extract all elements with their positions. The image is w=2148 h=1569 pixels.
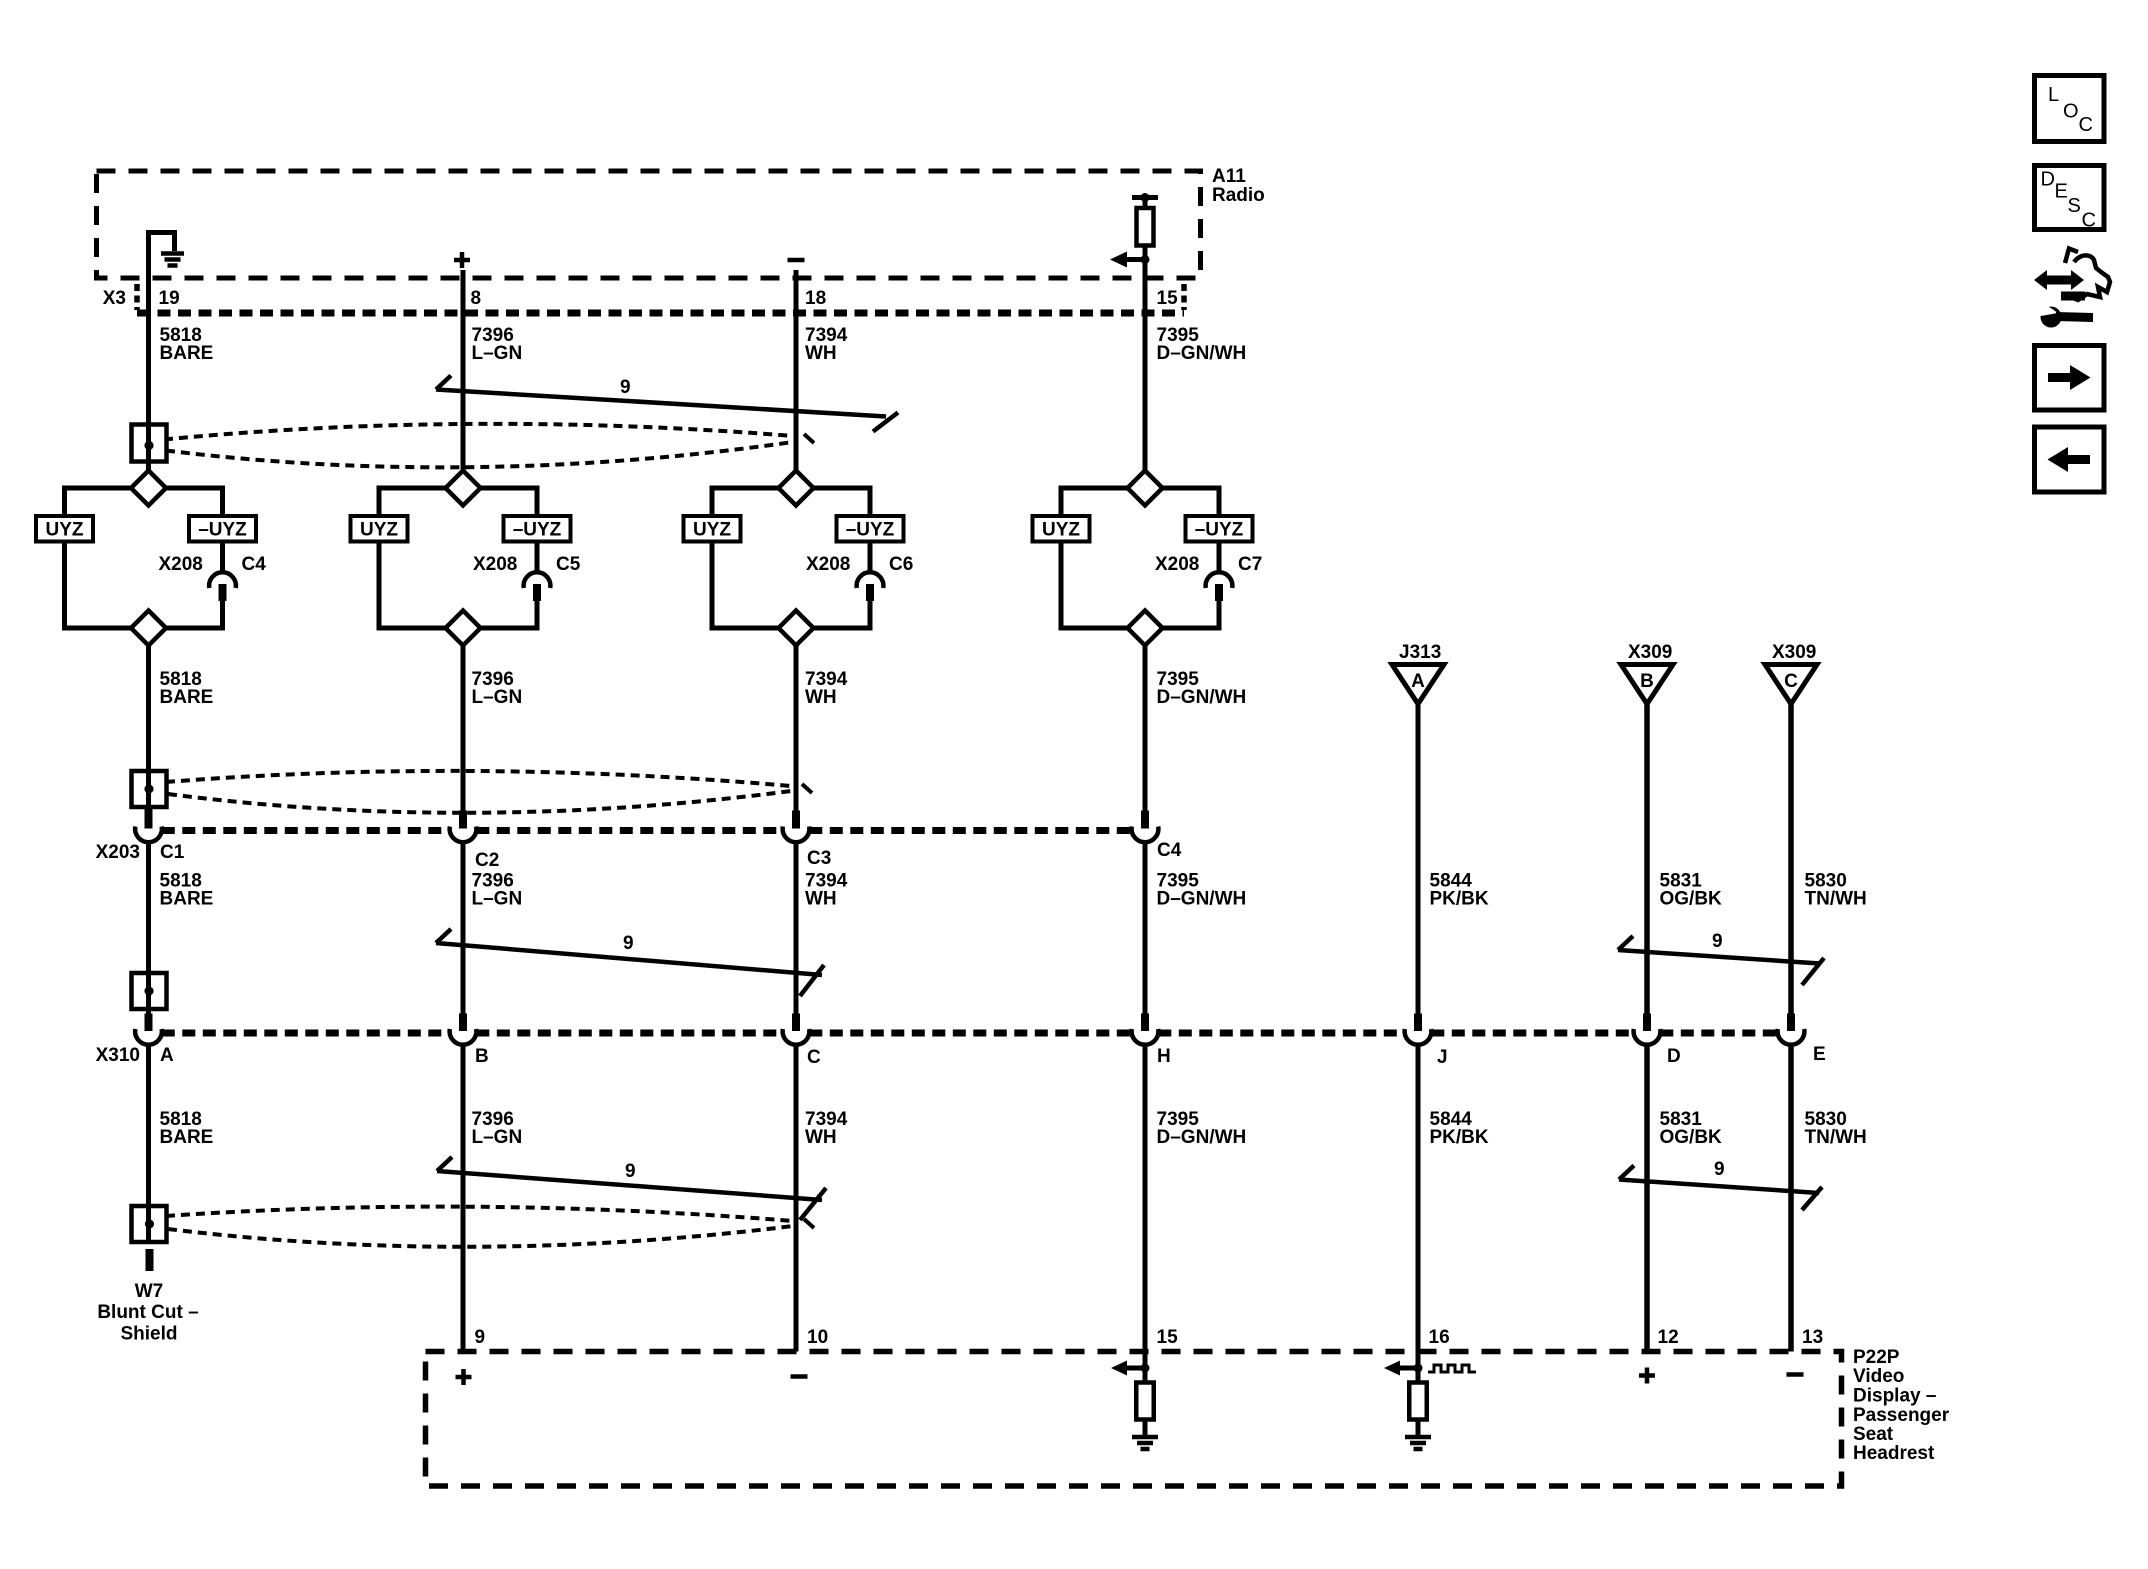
splice pack J313 terminal A bbox=[1399, 642, 1441, 663]
svg-text:9: 9 bbox=[623, 933, 634, 954]
svg-text:WH: WH bbox=[805, 889, 837, 910]
icon button next (right arrow) bbox=[2035, 346, 2105, 411]
svg-text:C4: C4 bbox=[242, 554, 267, 575]
shield drain splice (row 2) on wire 5818 bbox=[132, 771, 167, 807]
wire label 7396 L-GN (row 2) bbox=[472, 669, 523, 708]
option box UYZ bbox=[351, 516, 408, 542]
connector X310 terminal J bbox=[1414, 1014, 1422, 1032]
shield drain splice (row 1) on wire 5818 bbox=[132, 425, 167, 462]
svg-text:19: 19 bbox=[159, 288, 180, 309]
wire 5831 segment (X310 D to P22P pin 12) bbox=[1644, 1046, 1650, 1351]
pin 15 of P22P bbox=[1157, 1327, 1179, 1348]
splice diamond (top) on wire at x=148.5 bbox=[131, 471, 166, 506]
svg-text:L–GN: L–GN bbox=[472, 1127, 523, 1148]
shield drain splice (row 3) on wire 5818 bbox=[132, 973, 167, 1009]
svg-text:9: 9 bbox=[1712, 931, 1723, 952]
svg-text:E: E bbox=[1813, 1044, 1826, 1065]
icon button DESC bbox=[2035, 166, 2105, 230]
wire 7396 L-GN segment (A11 pin 8 down to diamond) bbox=[461, 270, 466, 471]
svg-text:L: L bbox=[2048, 84, 2059, 106]
pin 18 of X3 bbox=[805, 288, 826, 309]
minus terminal label (P22P pin 10) bbox=[791, 1374, 808, 1379]
svg-text:UYZ: UYZ bbox=[1042, 520, 1080, 541]
option box -UYZ bbox=[504, 516, 571, 542]
svg-text:D: D bbox=[2041, 169, 2055, 191]
svg-text:Radio: Radio bbox=[1212, 185, 1265, 206]
svg-text:PK/BK: PK/BK bbox=[1430, 889, 1489, 910]
svg-text:9: 9 bbox=[1714, 1159, 1725, 1180]
icon button previous (left arrow) bbox=[2035, 427, 2105, 492]
pin 16 of P22P bbox=[1429, 1327, 1450, 1348]
svg-text:H: H bbox=[1157, 1046, 1171, 1067]
twisted-pair loop (row 1, dashed ellipse from shield to wire 7394) bbox=[164, 424, 793, 468]
label P22P Video Display - Passenger Seat Headrest bbox=[1853, 1347, 1950, 1464]
plus terminal label (A11 pin 8) bbox=[454, 252, 470, 268]
wire 5830 TN/WH segment (X309 C to X310 E) bbox=[1788, 704, 1794, 1031]
svg-text:Blunt Cut –: Blunt Cut – bbox=[97, 1302, 198, 1323]
svg-text:8: 8 bbox=[471, 288, 482, 309]
wire label 7396 L-GN (row 3) bbox=[472, 871, 523, 910]
wire label 5831 OG/BK (row 3) bbox=[1660, 871, 1723, 910]
signal arrow, resistor and ground at P22P pin 15 bbox=[1126, 1366, 1145, 1371]
connector X203 terminal C4 bbox=[1141, 811, 1149, 829]
svg-text:J313: J313 bbox=[1399, 642, 1441, 663]
svg-text:BARE: BARE bbox=[160, 1127, 214, 1148]
svg-text:X208: X208 bbox=[159, 554, 203, 575]
splice dots on wire 5818 bbox=[145, 441, 154, 450]
svg-text:D–GN/WH: D–GN/WH bbox=[1157, 687, 1247, 708]
inline connector X208 C6 bbox=[806, 554, 913, 575]
wire label 7396 L-GN (row 4) bbox=[472, 1109, 523, 1148]
option box UYZ bbox=[36, 516, 93, 542]
wire 5830 segment (X310 E to P22P pin 13) bbox=[1788, 1046, 1794, 1351]
svg-text:P22P: P22P bbox=[1853, 1347, 1900, 1368]
svg-text:WH: WH bbox=[805, 1127, 837, 1148]
wire 7396 segment (X310 B to P22P pin 9) bbox=[461, 1046, 466, 1351]
twisted-pair count arrow "9" (row 2) bbox=[436, 929, 824, 996]
icon harness routing (double arrow, part outline, wrench) bbox=[2034, 249, 2110, 328]
svg-text:UYZ: UYZ bbox=[693, 520, 731, 541]
wire label 7394 WH (row 1) bbox=[805, 325, 848, 364]
svg-text:OG/BK: OG/BK bbox=[1660, 1127, 1723, 1148]
wire 5844 segment (X310 J to P22P pin 16) bbox=[1416, 1046, 1421, 1382]
connector X203 terminal C3 bbox=[792, 811, 800, 829]
svg-text:X3: X3 bbox=[103, 288, 126, 309]
svg-text:L–GN: L–GN bbox=[472, 687, 523, 708]
svg-text:X309: X309 bbox=[1628, 642, 1672, 663]
svg-text:Passenger: Passenger bbox=[1853, 1405, 1950, 1426]
wire label 5830 TN/WH (row 3) bbox=[1805, 871, 1867, 910]
svg-text:X310: X310 bbox=[96, 1045, 140, 1066]
pin 9 of P22P bbox=[475, 1327, 486, 1348]
twisted-pair count arrow "9" (row 1, wires 7396/7394) bbox=[436, 376, 898, 432]
svg-text:BARE: BARE bbox=[160, 687, 214, 708]
svg-text:D: D bbox=[1667, 1046, 1681, 1067]
inline connector X208 C7 bbox=[1155, 554, 1262, 575]
svg-text:C3: C3 bbox=[807, 848, 831, 869]
svg-text:–UYZ: –UYZ bbox=[513, 520, 562, 541]
svg-text:PK/BK: PK/BK bbox=[1430, 1127, 1489, 1148]
svg-text:9: 9 bbox=[475, 1327, 486, 1348]
wire 7395 D-GN/WH segment (A11 resistor down to diamond) bbox=[1143, 246, 1148, 471]
wire 7394 WH segment (A11 pin 18 down to diamond) bbox=[794, 270, 799, 471]
wire 5818 segment (diamond through shield splice 2 to X203 C1) bbox=[146, 646, 151, 829]
svg-text:C: C bbox=[807, 1047, 821, 1068]
wire 7396 segment (diamond to X203 C2) bbox=[461, 646, 466, 829]
svg-text:18: 18 bbox=[805, 288, 826, 309]
wire 7395 segment (X203 C4 to X310 H) bbox=[1143, 844, 1148, 1031]
option box -UYZ bbox=[837, 516, 904, 542]
pin 15 of X3 bbox=[1157, 288, 1179, 309]
minus terminal label (P22P pin 13) bbox=[1787, 1372, 1804, 1377]
wire label 7394 WH (row 2) bbox=[805, 669, 848, 708]
svg-text:Display –: Display – bbox=[1853, 1386, 1936, 1407]
svg-text:TN/WH: TN/WH bbox=[1805, 889, 1867, 910]
splice diamond (bottom) on wire at x=1145 bbox=[1128, 611, 1163, 646]
wire label 5830 TN/WH (row 4) bbox=[1805, 1109, 1867, 1148]
component box A11 Radio (dashed outline) bbox=[97, 171, 1201, 278]
splice diamond (bottom) on wire at x=796 bbox=[779, 611, 814, 646]
svg-text:A: A bbox=[160, 1045, 174, 1066]
wire label 5831 OG/BK (row 4) bbox=[1660, 1109, 1723, 1148]
svg-text:WH: WH bbox=[805, 343, 837, 364]
svg-text:X208: X208 bbox=[473, 554, 517, 575]
svg-text:13: 13 bbox=[1802, 1327, 1823, 1348]
svg-text:UYZ: UYZ bbox=[360, 520, 398, 541]
svg-text:–UYZ: –UYZ bbox=[846, 520, 895, 541]
option box -UYZ bbox=[1186, 516, 1253, 542]
svg-text:9: 9 bbox=[620, 377, 631, 398]
connector X309 terminal C bbox=[1772, 642, 1816, 663]
wire label 7395 D-GN/WH (row 1) bbox=[1157, 325, 1247, 364]
connector X310 terminal E bbox=[1787, 1014, 1795, 1032]
svg-text:BARE: BARE bbox=[160, 343, 214, 364]
svg-text:BARE: BARE bbox=[160, 889, 214, 910]
wire arms to UYZ option boxes bbox=[65, 488, 223, 516]
resistor element inside A11 on wire 7395 bbox=[1132, 193, 1158, 246]
connector X203 terminal C1 bbox=[145, 808, 153, 829]
wire label 5818 BARE (row 2) bbox=[160, 669, 214, 708]
twisted-pair count arrow "9" (wires 5831/5830 upper) bbox=[1618, 936, 1824, 985]
svg-text:C: C bbox=[2082, 210, 2096, 232]
svg-text:15: 15 bbox=[1157, 288, 1179, 309]
twisted-pair count arrow "9" (row 3) bbox=[437, 1157, 826, 1220]
svg-text:UYZ: UYZ bbox=[46, 520, 84, 541]
svg-text:15: 15 bbox=[1157, 1327, 1179, 1348]
svg-text:C1: C1 bbox=[160, 842, 185, 863]
svg-text:X208: X208 bbox=[1155, 554, 1199, 575]
blunt cut shield stub W7 bbox=[146, 1249, 154, 1271]
twisted-pair loop (row 3, dashed ellipse) bbox=[166, 1207, 793, 1247]
svg-text:A: A bbox=[1411, 671, 1425, 692]
option box -UYZ bbox=[189, 516, 256, 542]
svg-text:S: S bbox=[2068, 195, 2081, 217]
signal arrow, square-wave, resistor and ground at P22P pin 16 bbox=[1399, 1366, 1418, 1371]
svg-text:B: B bbox=[475, 1046, 489, 1067]
connector X310 terminal C bbox=[792, 1014, 800, 1032]
wire 7394 segment (diamond to X203 C3) bbox=[794, 646, 799, 829]
svg-text:X208: X208 bbox=[806, 554, 850, 575]
label A11 Radio bbox=[1212, 166, 1265, 206]
splice diamond (bottom) on wire at x=148.5 bbox=[131, 611, 166, 646]
wire 7394 segment (X310 C to P22P pin 10) bbox=[794, 1046, 799, 1351]
splice diamond (top) on wire at x=1145 bbox=[1128, 471, 1163, 506]
wire label 7395 D-GN/WH (row 4) bbox=[1157, 1109, 1247, 1148]
component box P22P Video Display - Passenger Seat Headrest (dashed outline) bbox=[426, 1352, 1842, 1487]
svg-text:C5: C5 bbox=[556, 554, 581, 575]
wire label 7395 D-GN/WH (row 3) bbox=[1157, 871, 1247, 910]
option box UYZ bbox=[684, 516, 741, 542]
plus terminal label (P22P pin 12) bbox=[1639, 1368, 1655, 1384]
connector X309 terminal B bbox=[1628, 642, 1672, 663]
wire 7395 segment (X310 H to P22P pin 15) bbox=[1143, 1046, 1148, 1383]
wire label 5818 BARE (row 1) bbox=[160, 325, 214, 364]
svg-text:L–GN: L–GN bbox=[472, 343, 523, 364]
svg-text:C: C bbox=[1784, 671, 1798, 692]
wire label 5844 PK/BK (row 3) bbox=[1430, 871, 1489, 910]
svg-text:X203: X203 bbox=[96, 842, 140, 863]
wire 7395 segment (diamond to X203 C4) bbox=[1143, 646, 1148, 829]
connector X310 terminal A bbox=[145, 1014, 153, 1032]
pin 12 of P22P bbox=[1658, 1327, 1679, 1348]
pin 13 of P22P bbox=[1802, 1327, 1823, 1348]
svg-text:9: 9 bbox=[625, 1161, 636, 1182]
splice diamond (top) on wire at x=796 bbox=[779, 471, 814, 506]
splice diamond (bottom) on wire at x=463 bbox=[446, 611, 481, 646]
svg-text:WH: WH bbox=[805, 687, 837, 708]
svg-text:Shield: Shield bbox=[120, 1324, 177, 1345]
svg-text:Video: Video bbox=[1853, 1366, 1904, 1387]
shield drain splice (row 4) on wire 5818 bbox=[132, 1206, 167, 1242]
svg-text:TN/WH: TN/WH bbox=[1805, 1127, 1867, 1148]
connector X203 terminal C2 bbox=[459, 811, 467, 829]
connector X310 terminal D bbox=[1643, 1014, 1651, 1032]
minus terminal label (A11 pin 18) bbox=[788, 258, 805, 263]
icon button LOC bbox=[2035, 76, 2105, 142]
svg-text:OG/BK: OG/BK bbox=[1660, 889, 1723, 910]
connector X310 terminal B bbox=[459, 1014, 467, 1032]
wire 7394 segment (X203 C3 to X310 C) bbox=[794, 844, 799, 1031]
splice diamond (top) on wire at x=463 bbox=[446, 471, 481, 506]
svg-text:D–GN/WH: D–GN/WH bbox=[1157, 889, 1247, 910]
svg-text:16: 16 bbox=[1429, 1327, 1450, 1348]
pin 10 of P22P bbox=[807, 1327, 828, 1348]
svg-text:D–GN/WH: D–GN/WH bbox=[1157, 1127, 1247, 1148]
svg-text:–UYZ: –UYZ bbox=[1195, 520, 1244, 541]
wire 5818 segment (X203 C1 through shield splice 3 to X310 A) bbox=[146, 844, 151, 1031]
svg-text:L–GN: L–GN bbox=[472, 889, 523, 910]
wire label 5844 PK/BK (row 4) bbox=[1430, 1109, 1489, 1148]
connector X3 (dotted line with end brackets) bbox=[137, 310, 1184, 317]
connector X310 (dotted line) bbox=[162, 1030, 1778, 1037]
svg-text:O: O bbox=[2063, 101, 2079, 123]
wire label 7395 D-GN/WH (row 2) bbox=[1157, 669, 1247, 708]
svg-text:–UYZ: –UYZ bbox=[198, 520, 247, 541]
svg-text:C7: C7 bbox=[1238, 554, 1262, 575]
inline connector X208 C4 bbox=[159, 554, 267, 575]
wire 5818 segment (X310 A through shield splice 4 to blunt cut) bbox=[146, 1046, 151, 1244]
wire 5831 OG/BK segment (X309 B to X310 D) bbox=[1644, 704, 1650, 1031]
twisted-pair loop (row 2, dashed ellipse) bbox=[166, 771, 791, 813]
plus terminal label (P22P pin 9) bbox=[456, 1369, 472, 1385]
inline connector X208 C5 bbox=[473, 554, 581, 575]
twisted-pair count arrow "9" (wires 5831/5830 lower) bbox=[1619, 1166, 1822, 1211]
wire label 7394 WH (row 4) bbox=[805, 1109, 848, 1148]
svg-text:A11: A11 bbox=[1212, 166, 1246, 187]
wire arms to UYZ option boxes bbox=[1061, 488, 1219, 516]
wire label 7394 WH (row 3) bbox=[805, 871, 848, 910]
svg-text:Seat: Seat bbox=[1853, 1424, 1894, 1445]
svg-text:B: B bbox=[1640, 671, 1654, 692]
wire label 5818 BARE (row 4) bbox=[160, 1109, 214, 1148]
pin 19 of X3 bbox=[159, 288, 180, 309]
connector X203 (dotted line) bbox=[162, 827, 1132, 834]
wire label 5818 BARE (row 3) bbox=[160, 871, 214, 910]
pin 8 of X3 bbox=[471, 288, 482, 309]
wire 5844 PK/BK segment (J313 A to X310 J) bbox=[1416, 704, 1421, 1031]
wire arms to UYZ option boxes bbox=[379, 488, 537, 516]
svg-text:Headrest: Headrest bbox=[1853, 1443, 1935, 1464]
svg-text:C2: C2 bbox=[475, 850, 499, 871]
wire label 7396 L-GN (row 1) bbox=[472, 325, 523, 364]
svg-text:10: 10 bbox=[807, 1327, 828, 1348]
wire arms to UYZ option boxes bbox=[712, 488, 870, 516]
svg-text:C4: C4 bbox=[1157, 840, 1182, 861]
ground (chassis) inside A11 on wire 5818 bbox=[149, 233, 185, 279]
svg-text:C6: C6 bbox=[889, 554, 913, 575]
connector X310 terminal H bbox=[1141, 1014, 1149, 1032]
svg-text:J: J bbox=[1437, 1047, 1448, 1068]
signal arrow (to A11 pin 15) bbox=[1110, 252, 1150, 268]
wire 5818 BARE segment (A11 pin19 through shield splice 1 to diamond) bbox=[146, 278, 151, 471]
svg-text:D–GN/WH: D–GN/WH bbox=[1157, 343, 1247, 364]
svg-text:C: C bbox=[2079, 114, 2093, 136]
svg-text:E: E bbox=[2055, 181, 2068, 203]
wire 7396 segment (X203 C2 to X310 B) bbox=[461, 844, 466, 1031]
svg-text:12: 12 bbox=[1658, 1327, 1679, 1348]
svg-text:X309: X309 bbox=[1772, 642, 1816, 663]
option box UYZ bbox=[1033, 516, 1090, 542]
svg-text:W7: W7 bbox=[135, 1281, 164, 1302]
